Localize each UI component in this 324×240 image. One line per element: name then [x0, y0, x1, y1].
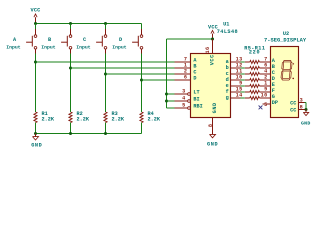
svg-text:U2: U2 [283, 31, 289, 37]
svg-text:5: 5 [182, 102, 185, 108]
label R3 2.2K [112, 111, 125, 123]
junction node C [104, 73, 107, 76]
pin 5 U2 DP (not connected) [259, 100, 278, 109]
label R2 2.2K [77, 111, 90, 123]
label 7-SEG_DISPLAY [264, 37, 307, 43]
pin 7 U2 segment A [263, 56, 276, 64]
svg-text:5: 5 [264, 102, 267, 108]
resistor R8 [245, 78, 260, 81]
pin 4 U2 segment C [263, 68, 275, 76]
pin 12 U1 output b [226, 62, 243, 71]
wire U1 f to R10 [241, 91, 245, 93]
svg-text:Input: Input [6, 44, 21, 50]
wire R2 to ground rail [70, 123, 72, 134]
pin 6 U1 input D [175, 74, 197, 81]
wire net C to U1 [106, 73, 175, 75]
pin 4 U1 BI (active low) [175, 95, 200, 102]
svg-text:VCC: VCC [31, 8, 41, 14]
wire ground rail [36, 133, 142, 135]
svg-text:GND: GND [212, 102, 218, 113]
wire net D to U1 [142, 79, 175, 81]
wire U1 c to R7 [241, 73, 245, 75]
svg-text:10: 10 [261, 92, 268, 98]
wire switch A down [35, 54, 37, 113]
pin 9 U2 segment F [263, 86, 275, 94]
svg-text:BI: BI [193, 96, 199, 102]
svg-text:2.2K: 2.2K [112, 117, 125, 123]
svg-text:GND: GND [207, 142, 218, 148]
ground GND (left) [31, 134, 42, 149]
label D Input [112, 37, 127, 51]
ground GND (U1) [207, 134, 218, 147]
IC U1 74LS48 body [191, 54, 231, 118]
svg-text:14: 14 [236, 92, 243, 98]
wire VCC top rail [36, 23, 142, 25]
junction node B [69, 67, 72, 70]
wire switch B down [70, 54, 72, 113]
pin 14 U1 output g [226, 92, 243, 101]
wire R1 to ground rail [35, 123, 37, 134]
svg-text:Input: Input [76, 44, 91, 50]
label U2 [283, 31, 289, 37]
wire U1 a to R5 [241, 61, 245, 63]
label U1 [223, 22, 229, 28]
label A Input [6, 37, 21, 51]
svg-text:CC: CC [290, 108, 296, 114]
wire U1 g to R11 [241, 97, 245, 99]
svg-text:2.2K: 2.2K [148, 117, 161, 123]
wire R6 to display [259, 67, 262, 69]
ground GND (display) [301, 110, 311, 127]
pin 2 U1 input C [175, 68, 197, 75]
junction ground rail R3 [104, 132, 107, 135]
svg-text:g: g [226, 95, 229, 101]
label B Input [41, 37, 56, 51]
pin 10 U2 segment G [261, 92, 275, 100]
pin 13 U1 output a [226, 56, 243, 65]
wire BI stub [167, 100, 175, 102]
junction BI net [165, 100, 168, 103]
label 220 [249, 50, 260, 56]
wire R8 to display [259, 79, 262, 81]
svg-text:CC: CC [290, 101, 296, 107]
resistor R10 [245, 90, 260, 93]
junction VCC rail at switch B [69, 22, 72, 25]
junction VCC rail at switch A [34, 22, 37, 25]
svg-text:GND: GND [301, 120, 311, 126]
svg-text:DP: DP [272, 100, 278, 106]
svg-text:D: D [119, 37, 122, 43]
svg-text:8: 8 [300, 104, 303, 110]
junction node A [34, 61, 37, 64]
svg-text:7-SEG_DISPLAY: 7-SEG_DISPLAY [264, 37, 307, 43]
wire switch C down [105, 54, 107, 113]
wire R7 to display [259, 73, 262, 75]
pin 8 U1 GND [208, 102, 218, 134]
svg-text:3: 3 [182, 88, 185, 94]
label R1 2.2K [42, 111, 55, 123]
switch C (pushbutton) [96, 24, 107, 54]
label R4 2.2K [148, 111, 161, 123]
svg-text:B: B [48, 37, 51, 43]
svg-text:Input: Input [41, 44, 56, 50]
pin 3 U2 CC (top) [290, 97, 304, 106]
svg-text:2.2K: 2.2K [42, 117, 55, 123]
label C Input [76, 37, 91, 51]
pin 1 U1 input B [175, 62, 197, 69]
junction ground rail R2 [69, 132, 72, 135]
pin 3 U1 LT (active low) [175, 88, 200, 95]
svg-text:6: 6 [184, 74, 187, 80]
svg-text:3: 3 [300, 97, 303, 103]
svg-text:16: 16 [205, 46, 211, 53]
svg-text:220: 220 [249, 50, 260, 56]
wire R9 to display [259, 85, 262, 87]
switch D (pushbutton) [132, 24, 143, 54]
wire R3 to ground rail [105, 123, 107, 134]
junction VCC rail at switch C [104, 22, 107, 25]
wire CC pins to ground [305, 103, 307, 110]
resistor R7 [245, 72, 260, 75]
resistor R6 [245, 66, 260, 69]
svg-text:2.2K: 2.2K [77, 117, 90, 123]
wire LT stub [167, 93, 175, 95]
pin 6 U2 segment B [263, 62, 275, 70]
wire R4 to ground rail [141, 123, 143, 134]
pin 5 U1 RBI (active low) [175, 102, 203, 109]
wire U1 b to R6 [241, 67, 245, 69]
svg-text:RBI: RBI [193, 103, 202, 109]
resistor R1 [34, 112, 37, 123]
svg-text:Input: Input [112, 44, 127, 50]
IC U2 7-segment display body [271, 47, 299, 118]
svg-text:VCC: VCC [209, 54, 215, 65]
wire R5 to display [259, 61, 262, 63]
pin 2 U2 segment D [263, 74, 275, 82]
wire RBI stub [167, 107, 175, 109]
switch B (pushbutton) [61, 24, 72, 54]
svg-text:A: A [13, 37, 17, 43]
resistor R5 [245, 60, 260, 63]
wire net A to U1 [36, 61, 175, 63]
junction CC ground [305, 108, 308, 111]
resistor R3 [104, 112, 107, 123]
wire switch D down [141, 54, 143, 113]
switch A (pushbutton) [26, 24, 37, 54]
wire VCC to pin16 and LT/BI/RBI [167, 39, 213, 108]
svg-text:U1: U1 [223, 22, 229, 28]
pin 9 U1 output e [226, 80, 243, 89]
junction ground rail R1 [34, 132, 37, 135]
junction node D [140, 79, 143, 82]
wire R11 to display [259, 97, 262, 99]
pin 7 U1 input A [175, 56, 198, 63]
resistor R9 [245, 84, 260, 87]
pin 11 U1 output c [226, 68, 243, 77]
resistor R2 [69, 112, 72, 123]
pin 10 U1 output d [226, 74, 243, 83]
power VCC (at U1) [208, 24, 218, 39]
junction LT net [165, 93, 168, 96]
svg-text:D: D [193, 75, 196, 81]
svg-text:74LS48: 74LS48 [217, 29, 238, 35]
pin 8 U2 CC (bottom) [290, 104, 304, 113]
svg-text:4: 4 [182, 95, 185, 101]
label R5-R11 [244, 45, 265, 51]
wire U1 d to R8 [241, 79, 245, 81]
pin 16 U1 VCC [205, 39, 215, 65]
power VCC (input rail) [31, 8, 41, 24]
label 74LS48 [217, 29, 238, 35]
wire R10 to display [259, 91, 262, 93]
junction VCC pin16 [211, 38, 214, 41]
wire net B to U1 [71, 67, 175, 69]
svg-text:GND: GND [31, 143, 42, 149]
svg-text:LT: LT [193, 89, 199, 95]
pin 15 U1 output f [226, 86, 243, 95]
resistor R11 [245, 96, 260, 99]
resistor R4 [140, 112, 143, 123]
wire U1 e to R9 [241, 85, 245, 87]
svg-text:8: 8 [208, 124, 214, 127]
7-segment digit figure [281, 61, 294, 81]
pin 1 U2 segment E [263, 80, 275, 88]
svg-text:C: C [83, 37, 86, 43]
